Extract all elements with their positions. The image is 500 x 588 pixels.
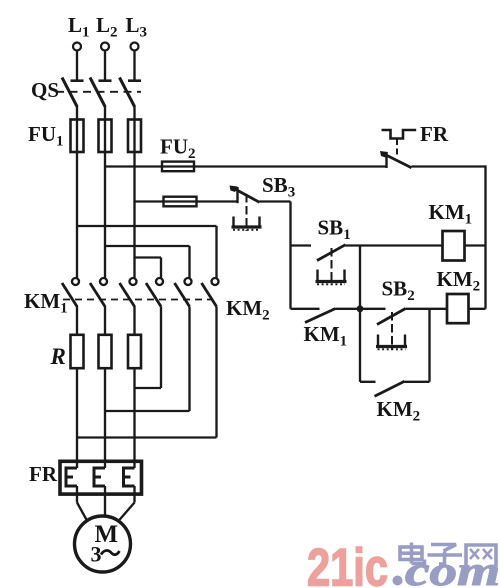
wire L2 to QS (104, 51, 106, 80)
svg-text:SB2: SB2 (382, 277, 415, 305)
watermark 21ic (307, 539, 388, 588)
watermark dot (393, 576, 403, 586)
fuse FU1 pole 3 (128, 120, 141, 153)
watermark char 电 (400, 543, 425, 564)
KM main contacts linkage dashed (63, 299, 212, 301)
pushbutton SB3 (NC stop) (230, 186, 262, 232)
svg-text:SB1: SB1 (318, 216, 351, 244)
svg-text:KM2: KM2 (437, 267, 481, 295)
label KM1 (coil) (429, 200, 473, 228)
switch QS pole 2 (90, 78, 112, 107)
fuse FU1 pole 2 (99, 120, 112, 153)
wire phase1 contact to R (76, 306, 78, 335)
label FU2 (160, 135, 196, 163)
wire phase1 QS to KM1 contact (76, 106, 78, 279)
coil KM1 (443, 231, 465, 261)
label SB1 (318, 216, 351, 244)
label KM2 (coil) (437, 267, 481, 295)
svg-text:21ic: 21ic (307, 539, 388, 588)
FR heater element 1 (66, 468, 77, 486)
svg-text:FU2: FU2 (160, 135, 196, 163)
svg-text:FR: FR (29, 462, 58, 486)
FR heater element 2 (94, 468, 105, 486)
thermal relay FR NC contact (380, 130, 416, 168)
wire left control vertical (289, 202, 291, 309)
FR heater element 3 (124, 468, 135, 486)
wire phase3 contact to R (133, 306, 135, 335)
node L2 (101, 43, 109, 51)
wire FR to right rail (412, 165, 486, 167)
wire phase2 contact to R (104, 306, 106, 335)
svg-text:com: com (405, 549, 500, 588)
wire KM2 pole5 bypass to phase2 (105, 307, 190, 412)
motor M 3~ (75, 516, 131, 572)
wire phase2 QS to KM1 contact (104, 106, 106, 279)
wire phase1 R to FR box (76, 368, 78, 468)
svg-text:KM2: KM2 (226, 296, 270, 324)
contactor KM2 main contact pole 6 (202, 278, 219, 307)
pushbutton SB1 (NO start) (291, 245, 347, 285)
wire SB2 to KM2 coil (406, 308, 448, 310)
wire control line B from phase3 through FU2 to SB3 (135, 200, 238, 202)
svg-text:L3: L3 (126, 13, 148, 41)
svg-text:L1: L1 (68, 13, 90, 41)
svg-text:KM1: KM1 (429, 200, 473, 228)
thermal relay FR heater box (60, 461, 142, 494)
switch QS pole 3 (120, 78, 142, 107)
wire KM1 coil to right rail (465, 244, 486, 246)
contact KM1 aux (self-hold) (291, 309, 361, 323)
junction dot (357, 305, 364, 312)
wire right rail vertical (484, 165, 486, 308)
resistor R phase 3 (128, 335, 141, 368)
wire L1 to QS (76, 51, 78, 80)
label KM2 (aux contact) (377, 397, 421, 425)
contactor KM1 main contact pole 1 (62, 278, 79, 307)
wire KM2 pole4 bypass to phase3 (135, 307, 162, 389)
fuse FU1 pole 1 (71, 120, 84, 153)
label FR (heater) (29, 462, 58, 486)
switch QS pole 1 (62, 78, 84, 107)
label R (50, 344, 66, 369)
node L1 (73, 43, 81, 51)
wire FR box to motor middle (104, 486, 106, 516)
wire FR box to motor left (77, 486, 88, 522)
contactor KM2 main contact pole 5 (175, 278, 192, 307)
svg-text:KM2: KM2 (377, 397, 421, 425)
label L1 (68, 13, 90, 41)
contactor KM1 main contact pole 2 (90, 278, 107, 307)
watermark com (405, 549, 500, 588)
resistor R phase 1 (71, 335, 84, 368)
fuse FU2 (upper) (162, 162, 194, 172)
coil KM2 (447, 294, 469, 323)
wire KM2 pole6 bypass to phase1 (77, 307, 217, 438)
QS linkage dashed (56, 91, 141, 93)
wire junction vertical (359, 246, 361, 382)
wire control line A from phase2 through FU2 to FR (105, 165, 387, 167)
wire phase3 R to FR box (133, 368, 135, 468)
wire KM2 coil to right rail (469, 308, 486, 310)
svg-text:FR: FR (420, 122, 449, 146)
svg-text:R: R (50, 344, 66, 369)
svg-text:L2: L2 (96, 13, 118, 41)
wire L3 to QS (133, 51, 135, 80)
svg-text:3: 3 (91, 542, 102, 567)
label FU1 (28, 122, 64, 150)
svg-text:KM1: KM1 (24, 289, 68, 317)
contact KM2 aux (self-hold) (360, 309, 430, 397)
label SB2 (382, 277, 415, 305)
label KM1 (main) (24, 289, 68, 317)
label FR (contact) (420, 122, 449, 146)
contactor KM2 main contact pole 4 (146, 278, 163, 307)
svg-text:FU1: FU1 (28, 122, 64, 150)
wire SB1 to KM1 coil (346, 244, 443, 246)
label L3 (126, 13, 148, 41)
contactor KM1 main contact pole 3 (120, 278, 137, 307)
svg-text:KM1: KM1 (304, 322, 348, 350)
label L2 (96, 13, 118, 41)
label KM2 (main) (226, 296, 270, 324)
svg-text:QS: QS (31, 78, 59, 102)
label QS (31, 78, 59, 102)
watermark char 子 (428, 545, 463, 565)
wire phase2 R to FR box (104, 368, 106, 468)
wire tap phase1 to KM2 pole6 (77, 226, 217, 278)
resistor R phase 2 (99, 335, 112, 368)
svg-text:SB3: SB3 (262, 173, 295, 201)
node L3 (131, 43, 139, 51)
wire tap phase3 to KM2 pole4 (135, 258, 162, 279)
wire SB3 to corner (260, 200, 291, 202)
watermark char 网 (466, 545, 496, 567)
label KM1 (aux contact) (304, 322, 348, 350)
wire tap phase2 to KM2 pole5 (105, 246, 190, 278)
label SB3 (262, 173, 295, 201)
wire phase3 QS to KM1 contact (133, 106, 135, 279)
fuse FU2 (lower) (164, 197, 197, 207)
wire FR box to motor right (118, 486, 135, 522)
pushbutton SB2 (NO start) (360, 309, 407, 351)
